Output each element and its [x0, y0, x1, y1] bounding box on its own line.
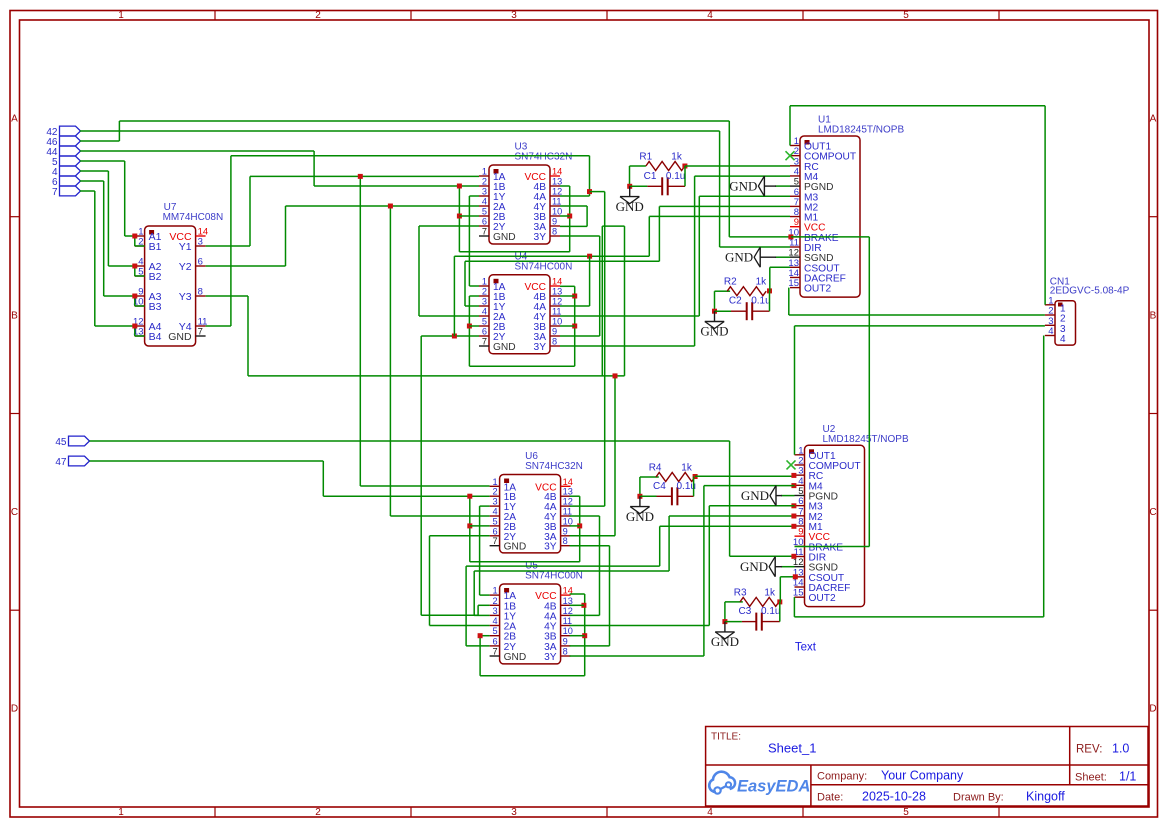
svg-text:C: C: [11, 507, 18, 518]
svg-text:D: D: [11, 704, 18, 715]
wire flag4 to U7 A2/B2: [80, 170, 108, 172]
svg-text:7: 7: [492, 647, 497, 657]
svg-text:GND: GND: [740, 559, 768, 574]
wire U7.Y1 to U3.1A and U6.1A: [206, 245, 250, 247]
svg-text:13: 13: [552, 287, 562, 297]
svg-text:5: 5: [492, 626, 497, 636]
ground: [775, 486, 777, 506]
svg-text:Company:: Company:: [817, 771, 867, 783]
svg-text:GND: GND: [168, 331, 192, 343]
wire net46 top: [119, 120, 729, 122]
svg-text:1/1: 1/1: [1119, 770, 1136, 784]
svg-text:13: 13: [563, 487, 573, 497]
svg-text:2: 2: [315, 10, 321, 21]
svg-text:9: 9: [563, 526, 568, 536]
svg-text:1k: 1k: [764, 587, 776, 598]
IC U6 SN74HC32N: [500, 475, 561, 553]
svg-text:13: 13: [552, 177, 562, 187]
junction U2 M1: [791, 524, 796, 529]
svg-text:R4: R4: [649, 463, 662, 474]
R2 C2 network on U1.CSOUT: [715, 290, 731, 292]
svg-text:3: 3: [482, 297, 487, 307]
svg-text:GND: GND: [725, 250, 753, 265]
svg-text:GND: GND: [493, 342, 516, 353]
wire U6.3Y to U5.3A: [570, 545, 610, 547]
svg-text:1: 1: [482, 167, 487, 177]
wire U6.2Y to U5.2A: [430, 535, 490, 537]
svg-text:OUT2: OUT2: [804, 284, 832, 295]
svg-text:SN74HC32N: SN74HC32N: [525, 461, 583, 472]
svg-text:2: 2: [482, 287, 487, 297]
wire U4.2Y to A-line and U5.1B: [421, 335, 479, 337]
svg-text:8: 8: [563, 647, 568, 657]
wire crossover links: [601, 226, 603, 376]
svg-text:14: 14: [563, 477, 573, 487]
svg-text:7: 7: [492, 536, 497, 546]
wire U6.4Y to U5.4A: [570, 515, 600, 517]
svg-text:4: 4: [707, 10, 713, 21]
U6 B-bus: [469, 496, 471, 562]
wire M3 net: [699, 195, 790, 197]
ground: [724, 622, 726, 632]
wire U7.Y3 across to U6.3A: [206, 295, 248, 297]
svg-text:C: C: [1149, 507, 1156, 518]
svg-text:0.1u: 0.1u: [666, 171, 685, 182]
junction U7 pin1: [132, 234, 137, 239]
svg-text:13: 13: [563, 596, 573, 606]
svg-text:R1: R1: [639, 152, 652, 163]
U4 B-bus to VCC pin14: [469, 295, 479, 297]
EasyEDA logo: [709, 772, 735, 792]
svg-text:3Y: 3Y: [544, 542, 557, 553]
svg-text:B2: B2: [149, 271, 162, 283]
svg-text:3Y: 3Y: [534, 232, 547, 243]
svg-text:8: 8: [552, 227, 557, 237]
svg-text:1: 1: [492, 477, 497, 487]
svg-text:B: B: [1150, 311, 1157, 322]
SGND symbol U1 pin12: [775, 256, 790, 258]
wire U5.1Y to U2.M2: [474, 614, 489, 616]
svg-text:C1: C1: [644, 171, 657, 182]
svg-text:1: 1: [118, 10, 124, 21]
PGND symbol U2 pin5: [781, 495, 795, 497]
svg-text:4: 4: [492, 507, 497, 517]
PGND symbol U1 pin5: [775, 185, 790, 187]
svg-text:14: 14: [552, 167, 562, 177]
svg-text:GND: GND: [616, 199, 644, 214]
wire DIR net: [719, 131, 721, 247]
svg-text:A: A: [1150, 114, 1157, 125]
resistor R3: [740, 597, 779, 606]
svg-text:15: 15: [788, 278, 799, 289]
svg-text:11: 11: [552, 197, 562, 207]
connector CN1 2EDGVC-5.08-4P: [1055, 301, 1076, 345]
svg-text:3: 3: [511, 10, 517, 21]
wire U7.Y4 to U3.4A: [206, 325, 231, 327]
svg-text:1k: 1k: [756, 277, 768, 288]
svg-text:C2: C2: [729, 296, 742, 307]
svg-text:6: 6: [482, 327, 487, 337]
input port flag 7: [60, 186, 81, 196]
input port flag 44: [60, 146, 81, 156]
svg-text:3: 3: [511, 807, 517, 818]
wire B-line U4.1Y to U1.M2: [465, 305, 479, 307]
svg-text:C3: C3: [739, 606, 752, 617]
svg-text:3: 3: [492, 606, 497, 616]
wire A-line to U1.M1 and U4.4A: [454, 255, 649, 257]
svg-text:GND: GND: [741, 488, 769, 503]
svg-text:3: 3: [492, 497, 497, 507]
ground: [639, 496, 641, 506]
ground: [763, 176, 765, 196]
svg-text:TITLE:: TITLE:: [711, 732, 741, 743]
R3 C3 network on U2.CSOUT: [725, 601, 743, 603]
svg-text:9: 9: [552, 217, 557, 227]
svg-text:SN74HC32N: SN74HC32N: [515, 152, 573, 163]
capacitor C2: [746, 302, 748, 320]
svg-text:7: 7: [482, 227, 487, 237]
wire flag7 to U7 A4/B4: [80, 190, 95, 192]
wire U3.2Y to U4.2A: [419, 225, 479, 227]
wire BRAKE net: [728, 121, 730, 237]
junction Y3 branch: [613, 373, 618, 378]
net44 to U3 B inputs: [458, 186, 460, 252]
input port flag 47: [69, 456, 90, 466]
input port flag 45: [69, 436, 90, 446]
resistor R1: [646, 162, 685, 171]
R1 C1 network on U1.RC: [630, 165, 646, 167]
junction U2 M3: [791, 503, 796, 508]
svg-text:8: 8: [552, 337, 557, 347]
IC U1 LMD18245T/NOPB: [800, 136, 860, 297]
junction U2 DIR: [791, 554, 796, 559]
svg-text:4: 4: [1060, 334, 1066, 345]
svg-text:GND: GND: [504, 542, 527, 553]
svg-text:Sheet_1: Sheet_1: [768, 741, 816, 756]
svg-text:4: 4: [707, 807, 713, 818]
ground: [774, 557, 776, 577]
svg-text:1: 1: [492, 586, 497, 596]
svg-text:GND: GND: [700, 324, 728, 339]
svg-text:LMD18245T/NOPB: LMD18245T/NOPB: [818, 125, 904, 136]
wire U3.3Y to U4.3A: [560, 235, 600, 237]
junction Y1 branch: [358, 174, 363, 179]
svg-text:1: 1: [482, 277, 487, 287]
svg-text:Sheet:: Sheet:: [1075, 772, 1107, 784]
svg-text:6: 6: [492, 526, 497, 536]
svg-text:12: 12: [563, 606, 573, 616]
wire flag6 to U7 A3/B3: [80, 180, 104, 182]
resistor R2: [727, 287, 766, 296]
svg-text:11: 11: [563, 507, 573, 517]
wire U5.2Y to U2.M1: [466, 645, 490, 647]
svg-text:Drawn By:: Drawn By:: [953, 792, 1004, 804]
svg-text:B: B: [11, 311, 18, 322]
svg-text:MM74HC08N: MM74HC08N: [163, 212, 224, 223]
IC U4 SN74HC00N: [489, 275, 550, 354]
svg-text:4: 4: [492, 616, 497, 626]
svg-text:GND: GND: [504, 652, 527, 663]
wire U5.3Y riser: [570, 655, 704, 657]
svg-text:47: 47: [55, 457, 67, 468]
svg-text:4: 4: [1048, 326, 1053, 337]
svg-text:B1: B1: [149, 241, 162, 253]
svg-text:12: 12: [552, 297, 562, 307]
junction U2 RC: [791, 473, 796, 478]
svg-text:2: 2: [492, 596, 497, 606]
svg-text:45: 45: [55, 437, 67, 448]
junction U2 M2: [791, 514, 796, 519]
junction U2 M4: [791, 483, 796, 488]
ground: [714, 311, 716, 321]
svg-text:10: 10: [563, 516, 573, 526]
svg-text:1.0: 1.0: [1112, 742, 1129, 756]
svg-text:5: 5: [903, 807, 909, 818]
svg-text:10: 10: [563, 626, 573, 636]
svg-text:A: A: [11, 114, 18, 125]
svg-text:10: 10: [552, 317, 562, 327]
wire U3.1Y to U4.1A: [469, 195, 479, 197]
svg-text:GND: GND: [729, 179, 757, 194]
svg-text:D: D: [1149, 704, 1156, 715]
svg-text:5: 5: [482, 317, 487, 327]
svg-text:OUT2: OUT2: [809, 593, 837, 604]
svg-text:5: 5: [492, 516, 497, 526]
svg-text:5: 5: [903, 10, 909, 21]
svg-text:0.1u: 0.1u: [761, 606, 780, 617]
svg-text:11: 11: [563, 616, 573, 626]
SGND symbol U2 pin12: [781, 566, 795, 568]
svg-text:Y3: Y3: [179, 291, 192, 303]
input port flag 46: [60, 136, 81, 146]
svg-text:8: 8: [563, 536, 568, 546]
IC U5 SN74HC00N: [500, 584, 561, 664]
svg-text:EasyEDA: EasyEDA: [737, 778, 810, 796]
wire U3.4Y to U3.3A: [560, 205, 587, 207]
wire flag5 to U7 A1/B1: [80, 160, 125, 162]
svg-text:Text: Text: [795, 642, 817, 654]
title block: [706, 727, 1148, 807]
capacitor C4: [671, 487, 673, 505]
frame column/row tick lines: [214, 11, 216, 21]
svg-text:LMD18245T/NOPB: LMD18245T/NOPB: [823, 434, 909, 445]
svg-text:0.1u: 0.1u: [751, 296, 770, 307]
no-connect X on U2 pin 2: [787, 460, 796, 469]
wire U2.OUT1 to CN1 pin3: [794, 326, 796, 455]
svg-text:SN74HC00N: SN74HC00N: [525, 571, 583, 582]
svg-text:6: 6: [198, 257, 203, 268]
svg-text:3Y: 3Y: [534, 342, 547, 353]
svg-text:B3: B3: [149, 301, 162, 313]
svg-text:Kingoff: Kingoff: [1026, 790, 1065, 804]
svg-text:7: 7: [482, 337, 487, 347]
svg-text:Y1: Y1: [179, 241, 192, 253]
wire U4.4Y to U1.M3 riser: [560, 315, 699, 317]
svg-text:7: 7: [198, 327, 203, 338]
svg-text:2: 2: [482, 177, 487, 187]
svg-text:4: 4: [482, 307, 487, 317]
input port flag 42: [60, 126, 81, 136]
U5 B-bus to VCC: [570, 593, 585, 595]
ground: [629, 186, 631, 196]
wire net42: [80, 130, 720, 132]
svg-text:7: 7: [52, 187, 58, 198]
svg-text:1k: 1k: [671, 152, 683, 163]
svg-text:2: 2: [315, 807, 321, 818]
svg-text:12: 12: [563, 497, 573, 507]
resistor R4: [656, 473, 695, 482]
svg-text:6: 6: [482, 217, 487, 227]
svg-text:14: 14: [552, 277, 562, 287]
IC U2 LMD18245T/NOPB: [805, 445, 865, 606]
wire U6.1Y to U5.1A: [480, 505, 490, 507]
capacitor C1: [661, 177, 663, 195]
svg-text:1k: 1k: [681, 463, 693, 474]
svg-text:1: 1: [118, 807, 124, 818]
junction U2 CSOUT: [793, 574, 798, 579]
wire net44: [80, 150, 314, 152]
svg-text:R2: R2: [724, 277, 737, 288]
junction Y2 branch: [388, 204, 393, 209]
svg-text:9: 9: [563, 636, 568, 646]
no-connect X on U1 pin 2: [786, 151, 795, 160]
svg-text:15: 15: [793, 588, 804, 599]
capacitor C3: [755, 613, 757, 631]
svg-text:GND: GND: [711, 634, 739, 649]
svg-text:5: 5: [482, 207, 487, 217]
svg-text:12: 12: [552, 187, 562, 197]
svg-text:6: 6: [492, 636, 497, 646]
input port flag 4: [60, 166, 81, 176]
input port flag 6: [60, 176, 81, 186]
svg-text:R3: R3: [734, 587, 747, 598]
wire flag46 to top: [80, 140, 119, 142]
svg-text:4: 4: [482, 197, 487, 207]
wire flag45 to U2.DIR: [90, 440, 730, 442]
svg-text:3: 3: [482, 187, 487, 197]
wire M4 net: [695, 175, 790, 177]
svg-text:Y2: Y2: [179, 261, 192, 273]
svg-text:3: 3: [198, 237, 203, 248]
IC U3 SN74HC32N: [489, 165, 550, 244]
junction U3 pin12 net branch: [587, 189, 592, 194]
R4 C4 network on U2.RC: [640, 476, 659, 478]
junction U7 pin9: [132, 294, 137, 299]
wire U5.4Y riser: [570, 625, 710, 627]
junction U7 pin12: [132, 324, 137, 329]
IC U7 MM74HC08N: [145, 226, 196, 346]
svg-text:SN74HC00N: SN74HC00N: [515, 261, 573, 272]
wire U7.Y2 to U3.2A and U6.2A: [206, 265, 286, 267]
svg-text:10: 10: [552, 207, 562, 217]
svg-text:2: 2: [492, 487, 497, 497]
wire flag47 to U6 B inputs: [90, 460, 324, 462]
svg-text:GND: GND: [493, 232, 516, 243]
svg-text:REV:: REV:: [1076, 744, 1102, 756]
wire U1.OUT1 to CN1 pin1: [789, 106, 791, 146]
svg-text:Date:: Date:: [817, 792, 843, 804]
svg-text:8: 8: [198, 287, 203, 298]
svg-text:Your Company: Your Company: [881, 769, 964, 783]
svg-text:2025-10-28: 2025-10-28: [862, 790, 926, 804]
input port flag 5: [60, 156, 81, 166]
svg-text:C4: C4: [653, 481, 666, 492]
junction U7 pin4: [132, 264, 137, 269]
svg-text:9: 9: [552, 327, 557, 337]
svg-text:B4: B4: [149, 331, 162, 343]
wire U2.OUT2 to CN1 pin4: [793, 597, 795, 617]
svg-text:GND: GND: [626, 509, 654, 524]
ground: [759, 247, 761, 267]
svg-text:3Y: 3Y: [544, 652, 557, 663]
svg-text:11: 11: [552, 307, 562, 317]
svg-text:2EDGVC-5.08-4P: 2EDGVC-5.08-4P: [1050, 285, 1130, 296]
wire U1.OUT2 to CN1 pin2: [788, 288, 790, 315]
